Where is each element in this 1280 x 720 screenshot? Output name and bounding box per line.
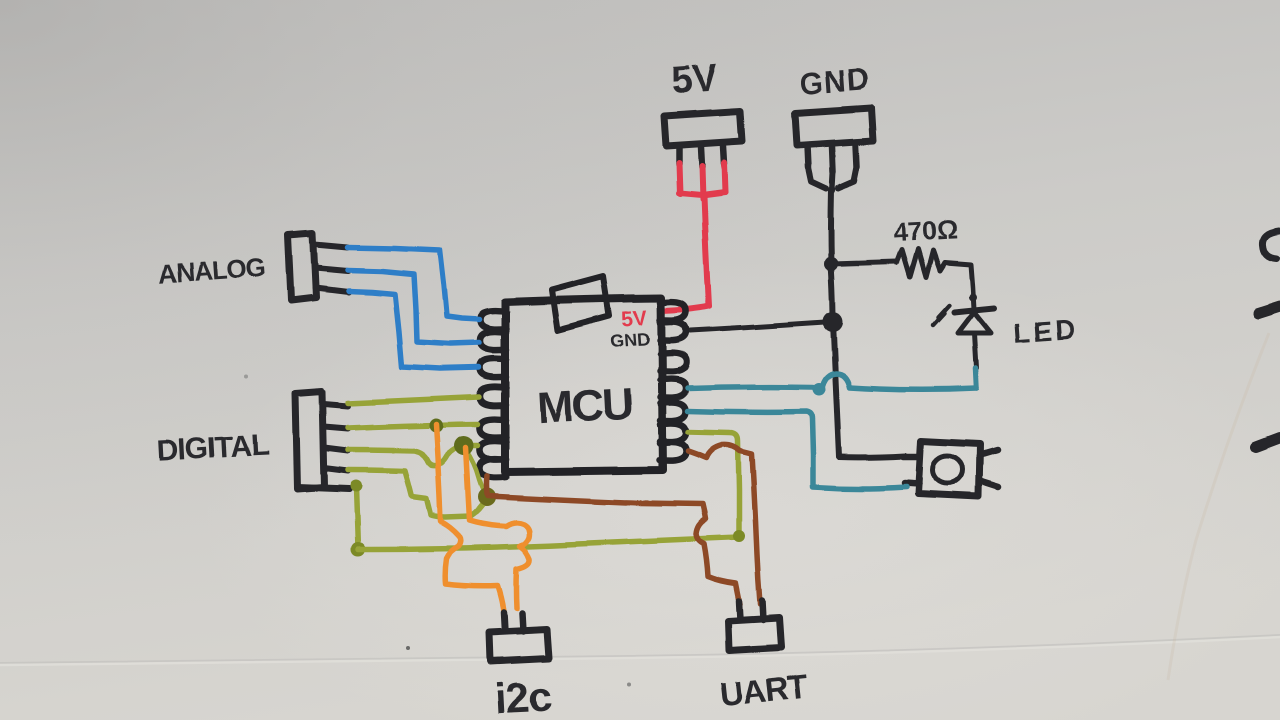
stray mark right edge arc (1263, 231, 1279, 259)
paper speck 3 (244, 374, 248, 378)
node C (junction below MCU pin) (478, 488, 496, 506)
paper diagonal crease (right) (1168, 333, 1269, 680)
wire green long horizontal (358, 537, 739, 549)
wire rail to resistor (831, 262, 897, 264)
svg-text:i2c: i2c (493, 672, 552, 720)
node B (green junction on D2) (454, 436, 474, 456)
push button SW1 (903, 441, 999, 497)
paper speck 1 (406, 646, 410, 650)
wire GND rail vertical (831, 190, 840, 457)
wire 5V red trident (679, 163, 725, 306)
LED D1 (933, 305, 994, 368)
wire i2c SCL orange (466, 448, 530, 608)
node teal junction (813, 383, 826, 396)
connector J6 UART header (728, 601, 781, 651)
wire analog A2 blue (348, 291, 479, 369)
wire digital D0 green (348, 397, 479, 403)
stray mark right edge dash 1 (1258, 307, 1280, 314)
connector J2 GND header (794, 108, 874, 173)
crystal Y1 (551, 276, 609, 330)
wire analog A0 blue (348, 247, 479, 320)
wire digital D1 green (348, 424, 478, 428)
wire digital D2 green with hop (348, 446, 478, 466)
wire MCU GND pin to rail (690, 322, 833, 331)
wire GND merge (808, 167, 857, 191)
svg-text:LED: LED (1012, 313, 1079, 348)
svg-text:5V: 5V (620, 306, 648, 331)
wire green connector stub down (356, 487, 358, 548)
wire green from node B down to junction (466, 450, 487, 495)
connector J4 DIGITAL header (295, 392, 349, 489)
node green stub top (350, 480, 362, 492)
connector J5 i2c header (489, 612, 549, 661)
svg-text:MCU: MCU (536, 379, 633, 433)
wire teal LED bottom stub (976, 368, 977, 388)
node green long-wire right (733, 530, 745, 542)
wire digital D3 green staircase (348, 470, 485, 517)
svg-text:DIGITAL: DIGITAL (156, 429, 269, 468)
wire teal MCU pin5 down to button (688, 411, 906, 489)
wire red to MCU 5V pin (662, 306, 709, 311)
connector J3 ANALOG header (288, 233, 348, 301)
svg-text:GND: GND (798, 62, 872, 102)
node junction MCU GND tap (823, 312, 843, 332)
svg-text:470Ω: 470Ω (892, 214, 958, 247)
wire GND rail to button (839, 456, 905, 457)
stray mark right edge dash 2 (1256, 439, 1280, 448)
wire teal MCU pin4 to LED with hop (688, 373, 977, 389)
node junction resistor tap (824, 257, 838, 271)
paper crease line (bottom) (0, 635, 1280, 663)
resistor R1 zigzag (897, 249, 945, 277)
connector J1 5V header (664, 111, 742, 167)
MCU left pins (480, 311, 506, 478)
wire UART RX brown (from junction C) (488, 496, 740, 604)
paper speck 2 (628, 682, 632, 686)
wire UART TX brown (MCU right pin) (688, 445, 760, 604)
MCU right pins (660, 302, 686, 461)
svg-text:GND: GND (609, 329, 650, 352)
wire analog A1 blue (348, 270, 479, 344)
wire i2c SDA orange (436, 424, 504, 611)
MCU U1 body (505, 298, 663, 472)
node green long-wire left (351, 542, 365, 556)
wire resistor to LED (945, 262, 974, 309)
svg-text:5V: 5V (670, 57, 720, 102)
wire green MCU pin to long wire (688, 432, 739, 536)
wire brown stub MCU pin7 to junction C (484, 476, 490, 494)
node A (green junction on D1) (429, 418, 443, 432)
